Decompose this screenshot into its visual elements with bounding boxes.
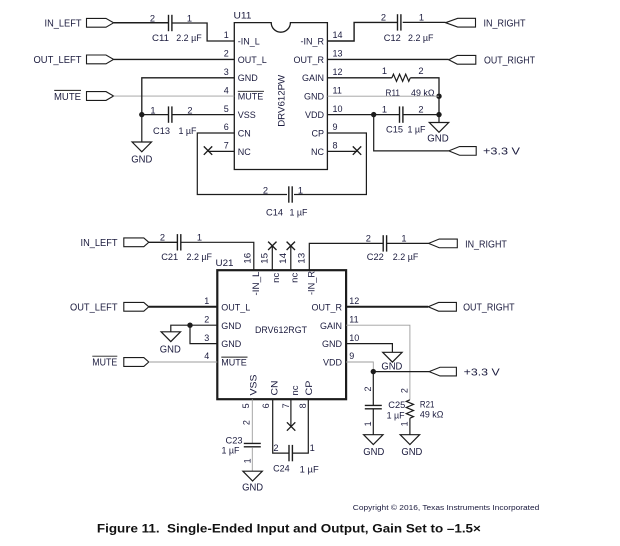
svg-text:OUT_R: OUT_R (293, 55, 324, 65)
C12 pin 2 number (381, 13, 386, 23)
svg-text:2: 2 (204, 314, 209, 324)
svg-text:DRV612PW: DRV612PW (276, 74, 286, 126)
wire VDD to +3.3V (374, 115, 449, 151)
wire R11 to node column (410, 78, 439, 115)
svg-text:1: 1 (382, 66, 387, 76)
no-connect X pin 8 (353, 146, 361, 154)
C11 reference label (152, 33, 169, 43)
U11 reference designator (234, 11, 252, 21)
C12 reference label (384, 33, 401, 43)
junction node at C13 (139, 112, 144, 117)
svg-text:9: 9 (333, 122, 338, 132)
svg-text:3: 3 (224, 67, 229, 77)
svg-text:5: 5 (241, 403, 251, 408)
svg-text:1 µF: 1 µF (300, 464, 319, 474)
wire IN_LEFT to C11 (114, 22, 169, 24)
GND label (top left) (131, 154, 152, 165)
wire C22 to IN_RIGHT (387, 242, 429, 244)
U21 pin number 6 (261, 403, 271, 408)
svg-text:2.2 µF: 2.2 µF (176, 33, 202, 43)
svg-text:NC: NC (238, 147, 251, 157)
svg-text:49 kΩ: 49 kΩ (411, 88, 435, 98)
resistor R21 (406, 400, 413, 418)
svg-text:C24: C24 (273, 464, 290, 474)
svg-text:VSS: VSS (248, 375, 258, 396)
U11 pin number 9 (333, 122, 338, 132)
U11 pin number 2 (224, 49, 229, 59)
connector +3.3V (top) (449, 147, 476, 156)
capacitor C13 (169, 106, 172, 122)
GND label (under C25) (363, 447, 384, 458)
wire U21 pin 6 CN to C24 (273, 399, 289, 453)
junction node at ground column (436, 112, 441, 117)
U11 pin number 1 (224, 30, 229, 40)
capacitor C24 (289, 445, 292, 461)
svg-text:OUT_L: OUT_L (221, 302, 250, 312)
svg-text:3: 3 (204, 333, 209, 343)
svg-text:MUTE: MUTE (92, 358, 117, 369)
svg-text:1 µF: 1 µF (408, 125, 426, 135)
svg-text:R11: R11 (386, 88, 401, 98)
U21 reference designator (216, 258, 234, 268)
GND label (under C23) (242, 482, 263, 493)
R21 pin 1 number (400, 421, 410, 426)
svg-text:1: 1 (298, 185, 303, 195)
wire U11 pin 12 to R11 (327, 77, 392, 79)
U21 pin 16 label -IN_L (251, 272, 261, 296)
svg-text:C12: C12 (384, 33, 401, 43)
ground symbol (under R21) (400, 435, 419, 445)
svg-text:11: 11 (333, 85, 342, 95)
svg-text:-IN_L: -IN_L (251, 272, 261, 296)
U21 pin 12 label OUT_R (311, 302, 342, 312)
svg-text:R21: R21 (420, 399, 435, 409)
svg-text:12: 12 (333, 67, 343, 77)
svg-text:GND: GND (427, 133, 449, 144)
svg-text:16: 16 (242, 253, 252, 264)
U11 pin 11 label GND (304, 92, 325, 102)
R11 pin 1 number (382, 66, 387, 76)
label MUTE (bottom) (92, 356, 117, 369)
C23 reference label (226, 436, 243, 446)
IC U21 DRV612RGT body (217, 270, 346, 399)
U11 pin number 8 (333, 141, 338, 151)
R21 reference label (420, 399, 435, 409)
C22 value 2.2 uF (393, 252, 419, 262)
no-connect X pin 15 (268, 242, 276, 250)
U11 pin number 13 (333, 49, 343, 59)
U21 pin 3 label GND (221, 339, 242, 349)
wire node to ground (top left) (141, 115, 143, 142)
C13 pin 1 number (150, 106, 155, 116)
ground symbol (top left) (132, 142, 151, 152)
wire U11 pin 6 CN loop (197, 133, 287, 195)
capacitor C11 (169, 15, 172, 31)
svg-text:C22: C22 (367, 252, 384, 262)
wire C13 to U11 pin 5 (172, 114, 234, 116)
svg-text:2.2 µF: 2.2 µF (408, 33, 434, 43)
U21 pin number 13 (297, 253, 307, 264)
C12 value 2.2 uF (408, 33, 434, 43)
connector MUTE (bottom) (124, 358, 149, 367)
svg-text:2: 2 (273, 443, 278, 453)
svg-text:GND: GND (131, 154, 152, 165)
svg-text:1: 1 (242, 458, 252, 463)
connector OUT_RIGHT (bottom) (428, 302, 456, 311)
U21 pin 5 label VSS (248, 375, 258, 396)
connector +3.3V (bottom) (429, 367, 456, 376)
C24 value 1 uF (300, 464, 319, 474)
R21 value 49 kOhm (420, 410, 444, 420)
wire U11 pin 10 VDD (327, 114, 399, 116)
svg-text:9: 9 (349, 351, 354, 361)
svg-text:IN_LEFT: IN_LEFT (45, 19, 82, 30)
svg-text:GND: GND (160, 344, 181, 355)
wire U21 pin 11 GAIN to R21 (346, 325, 410, 400)
svg-text:2: 2 (418, 66, 423, 76)
ground symbol (under C25) (364, 435, 383, 445)
svg-text:2: 2 (242, 420, 252, 425)
C22 pin 2 number (366, 234, 371, 244)
svg-text:4: 4 (224, 85, 229, 95)
label IN_LEFT (top) (45, 19, 82, 30)
C21 value 2.2 uF (187, 252, 213, 262)
svg-text:GND: GND (221, 339, 242, 349)
C15 pin 1 number (382, 104, 387, 114)
svg-text:C23: C23 (226, 436, 243, 446)
wire C25 to ground (372, 409, 374, 435)
U21 pin number 7 (281, 403, 291, 408)
svg-text:8: 8 (333, 141, 338, 151)
U21 pin number 5 (241, 403, 251, 408)
connector OUT_RIGHT (top) (449, 55, 476, 64)
U21 pin number 16 (242, 253, 252, 264)
svg-text:13: 13 (297, 253, 307, 264)
svg-text:GAIN: GAIN (320, 321, 342, 331)
no-connect X pin 7 (bottom) (287, 422, 295, 430)
svg-text:7: 7 (224, 141, 229, 151)
capacitor C21 (177, 234, 180, 250)
svg-text:IN_LEFT: IN_LEFT (81, 238, 118, 249)
svg-text:+3.3 V: +3.3 V (483, 147, 520, 158)
wire IN_LEFT to C21 (149, 241, 178, 243)
svg-text:GND: GND (221, 321, 242, 331)
svg-text:11: 11 (349, 314, 358, 324)
C15 value 1 uF (408, 125, 426, 135)
svg-text:U11: U11 (234, 11, 252, 21)
svg-text:5: 5 (224, 104, 229, 114)
capacitor C14 (289, 186, 292, 202)
wire C12 to IN_RIGHT (403, 21, 446, 23)
U11 pin 14 label -IN_R (300, 36, 324, 46)
svg-text:1 µF: 1 µF (290, 207, 308, 217)
GND label (bottom left) (160, 344, 181, 355)
U11 pin number 11 (333, 85, 342, 95)
svg-text:1: 1 (187, 13, 192, 23)
copyright notice (353, 504, 540, 512)
U21 pin number 2 (204, 314, 209, 324)
wire U21 pin 7 stub (290, 399, 292, 426)
no-connect X pin 7 (204, 146, 212, 154)
wire OUT_LEFT to U11 pin 2 (114, 58, 235, 60)
label OUT_RIGHT (bottom) (463, 303, 514, 314)
svg-text:C25: C25 (388, 400, 405, 410)
U21 pin number 12 (349, 296, 359, 306)
svg-text:GND: GND (238, 73, 258, 83)
svg-text:1 µF: 1 µF (387, 410, 405, 420)
U11 pin 2 label OUT_L (238, 55, 267, 65)
U21 pin 8 label CP (304, 381, 314, 396)
resistor R11 (392, 74, 410, 81)
svg-text:2: 2 (150, 13, 155, 23)
svg-text:GAIN: GAIN (302, 73, 324, 83)
U21 pin 2 label GND (221, 321, 242, 331)
svg-text:OUT_LEFT: OUT_LEFT (34, 55, 82, 66)
svg-text:1 µF: 1 µF (179, 126, 197, 136)
svg-text:1: 1 (363, 421, 373, 426)
junction node R11-GND column (436, 94, 441, 99)
U11 pin 8 label NC (311, 147, 324, 157)
wire C24 to U21 pin 8 CP (293, 399, 309, 453)
wire OUT_LEFT to U21 pin 1 (149, 306, 218, 308)
svg-text:NC: NC (311, 147, 324, 157)
svg-text:GND: GND (363, 447, 384, 458)
label OUT_LEFT (top) (34, 55, 82, 66)
C14 pin 2 number (263, 185, 268, 195)
U21 pin 9 label VDD (323, 358, 343, 368)
U21 pin number 9 (349, 351, 354, 361)
figure caption (97, 521, 481, 535)
label IN_RIGHT (bottom) (465, 239, 507, 250)
svg-text:1: 1 (382, 104, 387, 114)
svg-text:+3.3 V: +3.3 V (464, 367, 500, 378)
connector IN_LEFT (top) (87, 18, 114, 27)
svg-text:14: 14 (278, 253, 288, 264)
U11 pin number 3 (224, 67, 229, 77)
svg-text:C15: C15 (386, 125, 403, 135)
svg-text:1: 1 (224, 30, 229, 40)
connector IN_LEFT (bottom) (124, 238, 149, 247)
label IN_RIGHT (top) (484, 19, 526, 30)
C22 pin 1 number (401, 234, 406, 244)
C24 pin 2 number (273, 443, 278, 453)
U21 pin 11 label GAIN (320, 321, 342, 331)
ground symbol (under C23) (243, 471, 262, 481)
label +3.3 V (bottom) (464, 367, 500, 378)
svg-text:7: 7 (281, 403, 291, 408)
U11 pin 6 label CN (238, 128, 251, 138)
svg-text:12: 12 (349, 296, 359, 306)
wire C14 to U11 pin 9 CP (294, 133, 366, 195)
svg-text:C14: C14 (266, 207, 283, 217)
junction node VDD (bottom) (371, 369, 376, 374)
connector IN_RIGHT (bottom) (429, 239, 458, 248)
svg-text:14: 14 (333, 30, 343, 40)
U21 pin number 10 (349, 333, 359, 343)
svg-text:IN_RIGHT: IN_RIGHT (484, 19, 526, 30)
svg-text:1: 1 (310, 443, 315, 453)
svg-text:1: 1 (197, 232, 202, 242)
wire U21 pin 14 stub (290, 246, 292, 270)
C11 pin 2 number (150, 13, 155, 23)
connector MUTE (top) (87, 92, 114, 101)
ground symbol (pin 10) (383, 352, 402, 362)
label OUT_RIGHT (top) (484, 56, 535, 67)
capacitor C22 (383, 235, 386, 251)
ground symbol (bottom left) (161, 332, 180, 342)
label +3.3 V (top) (483, 147, 520, 158)
U21 pin number 3 (204, 333, 209, 343)
GND label (top right) (427, 133, 449, 144)
R11 reference label (386, 88, 401, 98)
svg-text:8: 8 (298, 403, 308, 408)
junction node VDD branch (371, 112, 376, 117)
C11 pin 1 number (187, 13, 192, 23)
U21 pin number 15 (260, 253, 270, 264)
svg-text:10: 10 (333, 104, 343, 114)
wire U11 pin 3 to node (142, 78, 235, 115)
wire U21 pin 13 to C22 (309, 243, 383, 270)
wire C23 to ground (251, 447, 253, 471)
svg-text:OUT_L: OUT_L (238, 55, 267, 65)
svg-text:1: 1 (150, 106, 155, 116)
svg-text:GND: GND (322, 339, 343, 349)
ground symbol (top right) (429, 123, 448, 133)
svg-text:2: 2 (366, 234, 371, 244)
connector IN_RIGHT (top) (446, 18, 476, 27)
C25 pin 2 number (363, 386, 373, 391)
U11 pin 9 label CP (311, 128, 324, 138)
svg-text:2: 2 (263, 185, 268, 195)
U21 pin 13 label -IN_R (307, 271, 317, 295)
C14 reference label (266, 207, 283, 217)
U11 part name DRV612PW (276, 74, 286, 126)
U21 pin 10 label GND (322, 339, 343, 349)
svg-text:CN: CN (238, 128, 251, 138)
svg-text:U21: U21 (216, 258, 234, 268)
svg-text:OUT_LEFT: OUT_LEFT (70, 303, 118, 314)
svg-text:13: 13 (333, 49, 343, 59)
wire C15 to ground column (403, 114, 439, 116)
svg-text:MUTE: MUTE (54, 92, 81, 103)
svg-text:2.2 µF: 2.2 µF (393, 252, 419, 262)
svg-text:OUT_RIGHT: OUT_RIGHT (463, 303, 514, 314)
svg-text:10: 10 (349, 333, 359, 343)
wire node to C25 (372, 372, 374, 406)
svg-text:GND: GND (242, 482, 263, 493)
svg-text:1: 1 (400, 421, 410, 426)
U21 pin number 4 (204, 351, 209, 361)
svg-text:VDD: VDD (323, 358, 343, 368)
C21 reference label (161, 252, 178, 262)
wire C11 to U11 pin 1 (172, 23, 234, 41)
C15 pin 2 number (418, 104, 423, 114)
wire U21 pin 9 VDD to node (346, 362, 373, 372)
C22 reference label (367, 252, 384, 262)
wire U11 pin 13 to OUT_RIGHT (327, 58, 448, 60)
U11 pin number 10 (333, 104, 343, 114)
U11 pin 4 label MUTE (238, 91, 264, 101)
C15 reference label (386, 125, 403, 135)
U21 pin 6 label CN (270, 381, 280, 396)
C13 value 1 uF (179, 126, 197, 136)
U11 pin number 12 (333, 67, 343, 77)
U11 pin 13 label OUT_R (293, 55, 324, 65)
R11 pin 2 number (418, 66, 423, 76)
svg-text:MUTE: MUTE (238, 92, 263, 102)
U11 pin number 4 (224, 85, 229, 95)
wire U21 pin 2 to node (190, 324, 217, 326)
C14 pin 1 number (298, 185, 303, 195)
svg-text:2: 2 (400, 388, 410, 393)
svg-text:VDD: VDD (305, 110, 325, 120)
svg-text:OUT_R: OUT_R (311, 302, 342, 312)
U11 pin number 14 (333, 30, 343, 40)
wire node to ground (bottom left) (171, 325, 190, 332)
svg-text:1: 1 (204, 296, 209, 306)
U11 pin 1 label -IN_L (238, 36, 260, 46)
svg-text:2: 2 (363, 386, 373, 391)
C11 value 2.2 uF (176, 33, 202, 43)
GND label (pin 10) (381, 362, 402, 373)
connector OUT_LEFT (bottom) (124, 302, 149, 311)
svg-text:C11: C11 (152, 33, 169, 43)
wire node to U21 pin 3 (190, 325, 217, 343)
wire U21 pin 5 VSS to C23 (251, 399, 253, 443)
svg-text:1 µF: 1 µF (222, 446, 240, 456)
U11 pin number 5 (224, 104, 229, 114)
wire MUTE to U21 pin 4 (149, 361, 218, 363)
svg-text:nc: nc (271, 272, 281, 283)
svg-text:2: 2 (224, 49, 229, 59)
C25 value 1 uF (387, 410, 405, 420)
svg-text:15: 15 (260, 253, 270, 264)
U11 pin 12 label GAIN (302, 73, 324, 83)
no-connect X pin 14 (287, 242, 295, 250)
wire C21 to U21 pin 16 (181, 242, 254, 270)
svg-text:-IN_R: -IN_R (307, 271, 317, 295)
junction node GND (bottom left) (187, 323, 192, 328)
svg-text:-IN_L: -IN_L (238, 36, 260, 46)
U21 pin 7 label nc (290, 385, 300, 396)
IC U11 DRV612PW body (234, 23, 327, 170)
svg-text:2: 2 (381, 13, 386, 23)
U21 pin 14 label nc (290, 272, 300, 283)
C13 reference label (153, 126, 170, 136)
svg-text:C21: C21 (161, 252, 178, 262)
svg-text:IN_RIGHT: IN_RIGHT (465, 239, 507, 250)
capacitor C23 (244, 443, 261, 446)
svg-text:DRV612RGT: DRV612RGT (255, 325, 307, 335)
U11 pin 3 label GND (238, 73, 258, 83)
svg-text:49 kΩ: 49 kΩ (420, 410, 444, 420)
U11 pin number 6 (224, 122, 229, 132)
svg-text:6: 6 (261, 403, 271, 408)
svg-text:GND: GND (401, 447, 422, 458)
wire MUTE to U11 pin 4 (114, 95, 235, 97)
svg-text:Copyright © 2016, Texas Instru: Copyright © 2016, Texas Instruments Inco… (353, 504, 540, 512)
U21 pin number 8 (298, 403, 308, 408)
connector OUT_LEFT (top) (87, 55, 114, 64)
U21 part name DRV612RGT (255, 325, 307, 335)
svg-text:1: 1 (419, 13, 424, 23)
svg-text:nc: nc (290, 385, 300, 396)
svg-text:2: 2 (187, 106, 192, 116)
U11 pin number 7 (224, 141, 229, 151)
U11 pin 10 label VDD (305, 110, 325, 120)
wire U11 pin 11 GND (327, 95, 439, 97)
C12 pin 1 number (419, 13, 424, 23)
